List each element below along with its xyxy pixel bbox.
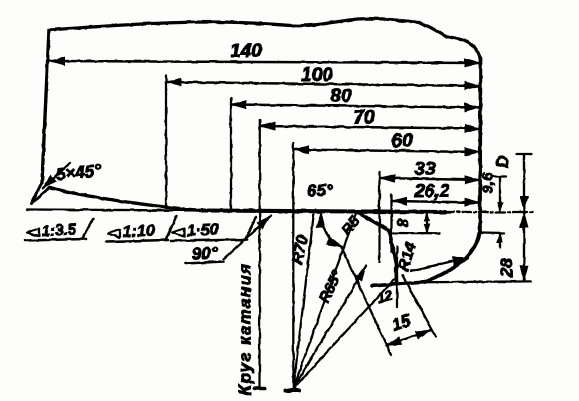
svg-text:1·50: 1·50 — [186, 221, 219, 240]
svg-text:9,6: 9,6 — [480, 172, 497, 194]
top-right corner radius — [459, 39, 481, 60]
flange root line (8 bottom) — [390, 232, 440, 234]
svg-text:1:3.5: 1:3.5 — [41, 221, 77, 240]
svg-text:70: 70 — [353, 108, 375, 129]
tread horizontal thick section — [202, 211, 445, 213]
underline 90deg — [186, 262, 224, 264]
svg-text:80: 80 — [330, 86, 352, 107]
ext line 15 left — [342, 248, 391, 355]
fan vertex serif — [286, 388, 300, 392]
svg-text:26,2: 26,2 — [413, 181, 449, 201]
radius line to flange corner — [293, 280, 394, 389]
dim 15 line — [386, 330, 431, 345]
underline 1:3.5 — [25, 239, 86, 241]
dim 26,2 line — [392, 201, 481, 203]
radius line with arrow to flank bend — [293, 266, 366, 389]
svg-text:90°: 90° — [191, 243, 218, 263]
chamfer 5x45 segment — [32, 187, 51, 204]
tread horizontal reference line left part — [27, 210, 202, 211]
tread taper 1:3.5 / 1:10 section — [50, 188, 202, 211]
chamfer face segment — [32, 182, 43, 204]
radius line to flank corner — [293, 212, 356, 389]
leader 5x45 — [43, 163, 71, 189]
dim 9,6 tick top — [493, 175, 506, 177]
svg-text:60: 60 — [391, 131, 413, 152]
svg-text:28: 28 — [497, 258, 516, 278]
dim 100 line — [166, 82, 480, 86]
dim 80 line — [231, 105, 480, 108]
slash 1:50 — [245, 218, 256, 241]
flange R14 curve — [424, 232, 480, 283]
taper symbol 1:50 — [172, 229, 184, 237]
underline 1:50 — [171, 240, 247, 242]
flange tip flat — [372, 282, 425, 286]
dim 9,6 upper segment — [499, 177, 501, 212]
left edge (outer face) — [42, 30, 49, 182]
right edge (inner face) — [478, 58, 482, 232]
svg-text:140: 140 — [230, 41, 262, 62]
flange tip extension line right — [424, 280, 531, 283]
svg-text:1:10: 1:10 — [122, 222, 155, 241]
svg-text:D: D — [493, 156, 512, 168]
extension line for 26,2 — [390, 195, 392, 253]
wheel body top break line — [49, 19, 459, 39]
svg-text:100: 100 — [301, 65, 333, 86]
extension line for 60 / radius fan vertical — [292, 143, 294, 389]
dim 33 line — [380, 178, 481, 180]
ext line 15 right — [402, 275, 436, 337]
leader R14 — [411, 258, 468, 272]
flange flank lower segment — [394, 264, 398, 283]
dim D tick top — [517, 153, 532, 155]
leader 90deg — [224, 216, 272, 260]
slash 1:10 — [166, 217, 177, 240]
dim 8 line — [426, 213, 428, 233]
underline 1:10 — [106, 240, 168, 242]
extension line for 100 — [165, 76, 167, 208]
rolling circle line foot serif — [255, 387, 265, 390]
taper symbol 1:10 — [108, 230, 120, 238]
taper symbol 1:3.5 — [27, 229, 39, 237]
65 deg angle arc — [321, 213, 342, 248]
extension line for 80 — [230, 98, 232, 211]
dim 70 line — [260, 126, 480, 129]
svg-text:65°: 65° — [307, 181, 333, 200]
extension line flange corner (9,6) — [482, 232, 504, 235]
dim 28 line — [523, 212, 525, 281]
svg-text:Круг катания: Круг катания — [236, 263, 255, 396]
svg-text:33: 33 — [414, 159, 436, 180]
rolling circle extension line (70) — [258, 120, 261, 388]
flange flank upper 65 deg segment — [356, 212, 389, 231]
radius line R70 — [293, 212, 314, 389]
flange flank steep segment — [389, 231, 396, 265]
slash 1:3.5 — [83, 219, 93, 238]
extension line for 33 — [378, 172, 380, 263]
dim 9,6 lower segment — [499, 234, 501, 248]
dim 140 line — [50, 61, 481, 63]
dim 60 line — [294, 150, 481, 153]
svg-text:8: 8 — [396, 218, 413, 227]
center dash-dot line right — [445, 211, 533, 213]
dim 12 vertical line — [396, 247, 398, 307]
dim D line — [523, 154, 525, 212]
